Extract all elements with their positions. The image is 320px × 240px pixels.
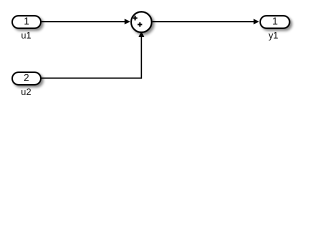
svg-text:2: 2 bbox=[24, 73, 30, 84]
svg-text:u2: u2 bbox=[21, 87, 31, 97]
plus sign input 2 bbox=[138, 22, 143, 27]
svg-text:y1: y1 bbox=[268, 31, 278, 41]
wire u2 to sum bbox=[42, 31, 145, 78]
sum block bbox=[131, 12, 152, 32]
inport block u1 bbox=[12, 16, 41, 29]
plus sign input 1 bbox=[133, 16, 138, 21]
svg-text:u1: u1 bbox=[21, 31, 31, 41]
wire sum to y1 bbox=[152, 19, 259, 25]
outport block y1 bbox=[260, 16, 289, 29]
svg-text:1: 1 bbox=[24, 17, 30, 28]
wire u1 to sum bbox=[42, 19, 131, 25]
inport block u2 bbox=[12, 72, 41, 85]
svg-text:1: 1 bbox=[272, 17, 278, 28]
